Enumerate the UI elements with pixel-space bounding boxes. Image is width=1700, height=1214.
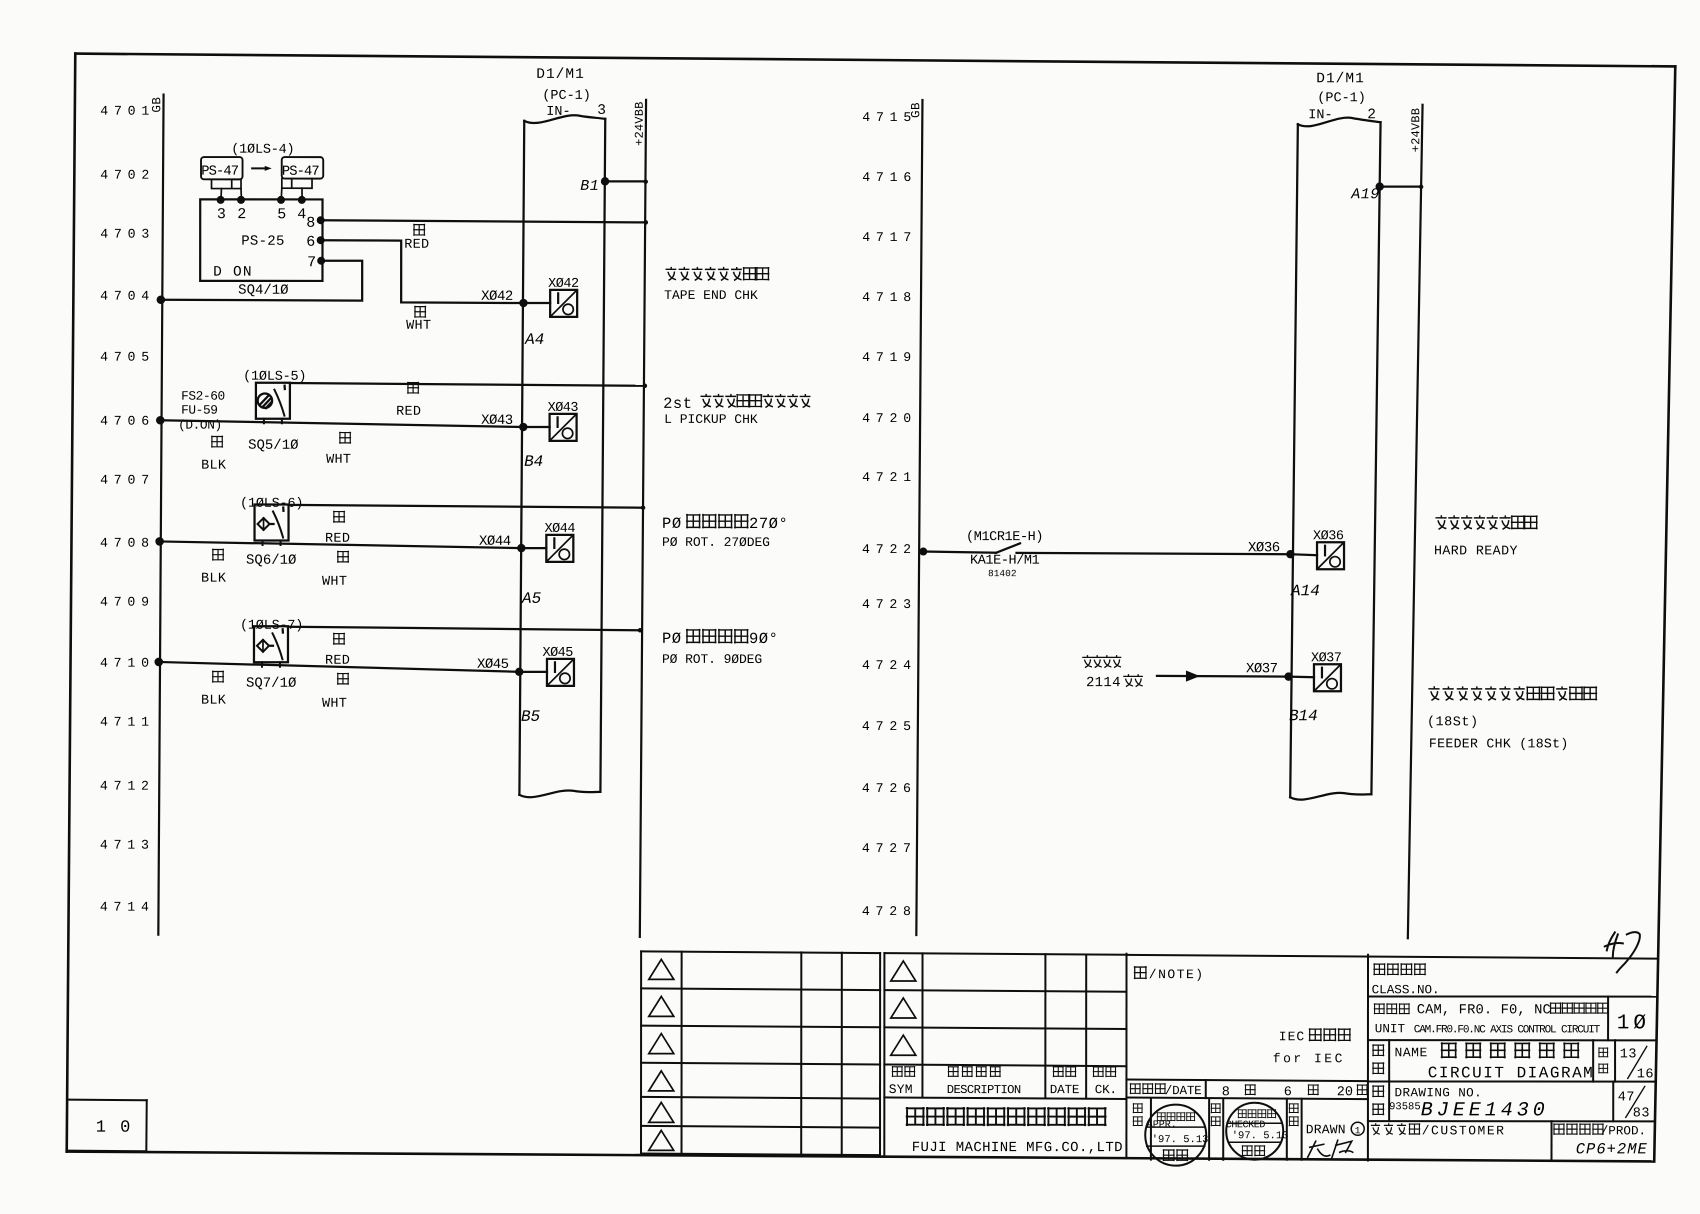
svg-text:B14: B14 [1289,707,1318,725]
svg-text:13: 13 [1620,1047,1637,1062]
svg-text:SQ7/1Ø: SQ7/1Ø [246,676,296,692]
wire 4706 bus to X043 [156,416,523,427]
svg-text:WHT: WHT [322,575,347,590]
drawn by cell [1306,1122,1365,1158]
annotation address from 2114 with arrow [1082,655,1288,691]
svg-text:PØ ROT. 27ØDEG: PØ ROT. 27ØDEG [662,535,770,550]
svg-text:4701: 4701 [100,104,155,119]
svg-text:A14: A14 [1290,582,1320,600]
fuse ref FS2-60 FU-59 (D.ON) [178,389,225,433]
svg-text:4708: 4708 [100,536,155,551]
svg-text:'97. 5.13: '97. 5.13 [1232,1130,1289,1142]
sheet number box 10 (bottom-left) [67,1100,146,1152]
svg-text:4728: 4728 [862,904,917,919]
svg-text:SQ6/1Ø: SQ6/1Ø [246,553,296,569]
svg-text:PØ: PØ [662,630,682,648]
approval stamp 2 (97.5.13) [1226,1103,1288,1160]
svg-text:4703: 4703 [100,227,155,242]
svg-text:B5: B5 [521,708,541,726]
svg-text:BJEE1430: BJEE1430 [1421,1099,1549,1122]
I/O point X037 [1246,651,1342,725]
wire 4710 bus to X045 [154,658,519,672]
svg-text:1Ø: 1Ø [1617,1012,1650,1035]
svg-text:81402: 81402 [988,568,1017,579]
svg-text:4719: 4719 [862,350,917,365]
limit switch SQ5/10 [248,383,298,454]
svg-text:4716: 4716 [862,170,917,185]
PS-25 pin 2 [237,196,246,223]
sensor head PS-47 right [282,157,324,180]
left GB bus wire [158,95,163,935]
svg-text:NAME: NAME [1395,1045,1428,1060]
wire colour label RED (pin8 wire) [404,224,429,253]
svg-text:WHT: WHT [322,697,347,712]
connector D1/M1 left box outline [519,115,605,797]
name row CIRCUIT DIAGRAM [1368,1040,1656,1121]
unit model row CAM FR0 F0 NC AXIS CONTROL CIRCUIT [1368,996,1656,1040]
annotation FEEDER CHK (18St) [1427,686,1597,751]
svg-text:PØ: PØ [662,515,682,533]
svg-text:/PROD.: /PROD. [1601,1124,1646,1138]
svg-text:4720: 4720 [862,411,917,426]
svg-text:4706: 4706 [100,414,155,429]
wire SQ5 top to +24VBB (RED) [290,383,647,388]
svg-text:DESCRIPTION: DESCRIPTION [947,1083,1021,1097]
PS-25 pin 7 [307,254,325,271]
annotation L PICKUP CHK [663,394,810,427]
revision table left [641,951,880,1155]
svg-text:CK.: CK. [1095,1083,1117,1097]
svg-text:D1/M1: D1/M1 [1316,71,1365,87]
class no cell [1368,963,1657,997]
svg-text:SQ5/1Ø: SQ5/1Ø [248,438,298,454]
revision triangles left column [649,959,674,1150]
svg-text:A5: A5 [521,590,542,608]
I/O square symbol [550,290,577,317]
svg-text:RED: RED [396,405,421,420]
svg-text:27Ø°: 27Ø° [749,515,788,533]
svg-text:PS-47: PS-47 [201,165,239,180]
svg-text:4725: 4725 [862,719,917,734]
annotation P0 ROT 270DEG [662,514,788,550]
svg-text:4705: 4705 [100,350,155,365]
approval stamp 1 (97.5.13) [1145,1105,1208,1166]
connector D1/M1 right box outline [1290,118,1380,800]
svg-text:/DATE: /DATE [1165,1084,1202,1098]
svg-text:+24VBB: +24VBB [633,101,647,145]
svg-text:FEEDER CHK (18St): FEEDER CHK (18St) [1429,736,1569,751]
svg-text:8: 8 [306,215,315,232]
svg-text:XØ37: XØ37 [1246,661,1278,677]
limit switch SQ7/10 [246,626,296,691]
label RED SQ7 [325,633,350,669]
svg-text:4710: 4710 [100,656,155,671]
svg-text:B1: B1 [580,178,599,195]
svg-text:20: 20 [1337,1085,1353,1100]
svg-text:XØ45: XØ45 [542,646,573,661]
I/O point X043 [481,401,578,471]
svg-text:FS2-60: FS2-60 [181,389,225,404]
wire SQ6 top to +24VBB (RED) [289,505,646,510]
connector D1/M1 (PC-1) IN-3 left header label [536,67,606,120]
svg-text:SYM: SYM [889,1082,913,1097]
I/O square symbol [547,659,574,686]
svg-text:TAPE END CHK: TAPE END CHK [664,288,758,303]
svg-text:4723: 4723 [862,597,917,612]
label BLK SQ5 [201,436,227,474]
svg-text:2114: 2114 [1086,675,1121,691]
svg-text:CP6+2ME: CP6+2ME [1576,1140,1648,1158]
svg-text:9Ø°: 9Ø° [749,630,778,648]
svg-text:PS-25: PS-25 [241,234,285,250]
svg-text:3: 3 [217,206,226,223]
annotation HARD READY [1434,515,1538,558]
svg-text:CIRCUIT DIAGRAM: CIRCUIT DIAGRAM [1428,1064,1595,1082]
PS-25 pin 3 [217,196,226,223]
svg-text:B4: B4 [524,453,543,471]
node A19 on connector to +24VBB [1350,182,1423,203]
svg-text:A19: A19 [1350,186,1380,203]
svg-text:BLK: BLK [201,572,227,587]
svg-text:2: 2 [237,206,246,223]
svg-text:+24VBB: +24VBB [1409,108,1423,152]
svg-text:XØ42: XØ42 [548,277,579,292]
handwritten sheet mark 47 [1605,932,1640,972]
PS-25 pin 4 [297,196,306,223]
svg-text:RED: RED [325,654,350,669]
photo sensor unit PS-25 / SQ4-10 box outline [200,199,322,281]
svg-text:D1/M1: D1/M1 [536,67,585,83]
svg-text:for IEC: for IEC [1273,1051,1345,1066]
label WHT SQ6 [322,551,349,590]
svg-text:SQ4/1Ø: SQ4/1Ø [238,283,288,299]
svg-text:(1ØLS-4): (1ØLS-4) [231,143,294,158]
+24VBB supply bus right [1408,105,1423,939]
svg-text:XØ43: XØ43 [548,401,579,416]
svg-text:APPR.: APPR. [1147,1120,1177,1131]
svg-text:(M1CR1E-H): (M1CR1E-H) [966,530,1043,545]
svg-text:XØ44: XØ44 [545,522,576,537]
svg-text:L PICKUP CHK: L PICKUP CHK [664,412,758,427]
svg-text:5: 5 [277,206,286,223]
svg-text:XØ43: XØ43 [481,413,513,429]
wire colour label WHT (pin6 wire) [406,306,431,334]
svg-text:XØ37: XØ37 [1311,651,1342,666]
svg-text:IEC: IEC [1279,1029,1305,1044]
svg-text:'97. 5.13: '97. 5.13 [1152,1134,1209,1146]
PS-25 pin 6 [306,234,325,251]
svg-text:4724: 4724 [862,658,917,673]
wire PS-25 pin6 to X042 [321,240,524,303]
note cell [1126,955,1656,1161]
note text for IEC [1273,1028,1351,1066]
arrow between PS-47 heads [252,166,272,171]
svg-text:(PC-1): (PC-1) [1317,91,1366,106]
svg-text:93585: 93585 [1389,1101,1421,1113]
svg-text:83: 83 [1633,1106,1650,1121]
svg-text:XØ42: XØ42 [481,289,513,305]
relay contact KA1E-H/M1 line 4722 [919,530,1290,579]
svg-text:KA1E-H/M1: KA1E-H/M1 [970,554,1040,569]
svg-text:FU-59: FU-59 [181,403,217,418]
I/O point X036 [1248,529,1344,600]
line numbers 4701-4714 [100,104,155,915]
svg-text:4: 4 [297,206,306,223]
PS-25 pin 8 [306,215,325,232]
I/O point X044 [479,522,575,608]
wire SQ7 top to +24VBB (RED) [288,627,642,633]
+24VBB supply bus left [632,100,646,937]
svg-text:BLK: BLK [201,694,227,709]
I/O point X045 [477,646,574,726]
svg-text:4726: 4726 [862,781,917,796]
annotation P0 ROT 90DEG [662,629,778,667]
I/O point X042 [481,277,579,349]
svg-text:4709: 4709 [100,595,155,610]
svg-text:HARD READY: HARD READY [1434,543,1518,558]
date row year month day [1130,1080,1368,1100]
revision table right (SYM/DESCRIPTION/DATE/CK) [884,953,1126,1158]
PS-47 left plug & pin wires [212,179,242,199]
svg-text:7: 7 [307,254,316,271]
connector D1/M1 (PC-1) IN-2 right header label [1308,71,1376,123]
svg-text:4721: 4721 [862,470,917,485]
svg-text:4718: 4718 [862,290,917,305]
svg-text:4702: 4702 [100,168,155,183]
approval cells and stamps [1133,1099,1302,1160]
svg-text:47: 47 [1618,1090,1635,1105]
svg-text:4713: 4713 [100,838,155,853]
svg-text:DATE: DATE [1050,1083,1079,1097]
I/O square symbol [550,414,577,441]
wire PS-25 pin7 to bus line 4704 [157,261,363,305]
svg-text:XØ36: XØ36 [1313,529,1344,544]
company cell FUJI MACHINE MFG.CO.,LTD [906,1107,1123,1156]
svg-text:1: 1 [1355,1125,1361,1136]
wire PS-25 pin8 to +24VBB [321,220,648,225]
label WHT SQ7 [322,673,349,712]
svg-text:CAM.FR0.F0.NC AXIS CONTROL CIR: CAM.FR0.F0.NC AXIS CONTROL CIRCUIT [1414,1024,1601,1036]
customer row [1371,1121,1648,1161]
svg-text:4717: 4717 [862,230,917,245]
svg-text:RED: RED [404,238,429,253]
label RED SQ5 [396,382,421,420]
svg-text:4714: 4714 [100,900,155,915]
svg-text:DRAWN: DRAWN [1306,1122,1346,1137]
svg-text:PS-47: PS-47 [282,165,320,180]
I/O square symbol [546,535,573,562]
svg-text:4727: 4727 [862,841,917,856]
PS-25 pin 5 [277,196,286,223]
wire 4708 bus to X044 [155,537,521,548]
annotation TAPE END CHK [664,267,769,303]
svg-text:XØ44: XØ44 [479,534,511,550]
line numbers 4715-4728 [862,110,917,919]
I/O square symbol [1317,542,1344,569]
svg-text:4722: 4722 [862,542,917,557]
svg-text:4711: 4711 [100,715,155,730]
svg-text:4715: 4715 [862,110,917,125]
label WHT SQ5 [326,432,351,468]
label BLK SQ7 [201,671,227,709]
svg-text:6: 6 [306,234,315,251]
svg-text:16: 16 [1637,1067,1654,1082]
label BLK SQ6 [201,549,227,587]
svg-text:1 0: 1 0 [96,1119,133,1138]
revision triangles second column [891,961,916,1055]
I/O square symbol [1314,664,1341,691]
svg-text:A4: A4 [524,331,544,349]
svg-text:/CUSTOMER: /CUSTOMER [1422,1123,1506,1138]
svg-text:4712: 4712 [100,779,155,794]
svg-text:FUJI MACHINE MFG.CO.,LTD: FUJI MACHINE MFG.CO.,LTD [912,1140,1123,1156]
drawing no row BJEE1430 [1368,1081,1655,1122]
svg-text:CAM, FR0. F0, NC: CAM, FR0. F0, NC [1417,1003,1551,1018]
svg-text:WHT: WHT [326,453,351,468]
svg-text:/NOTE): /NOTE) [1149,967,1205,982]
svg-text:D ON: D ON [213,265,253,281]
svg-text:XØ45: XØ45 [477,657,509,673]
svg-text:4707: 4707 [100,473,155,488]
limit switch SQ6/10 [246,504,296,568]
sensor head PS-47 left [201,157,243,180]
svg-text:(PC-1): (PC-1) [542,89,591,104]
svg-text:XØ36: XØ36 [1248,540,1280,556]
svg-text:(18St): (18St) [1427,715,1479,730]
node B1 on connector to +24VBB [580,177,648,195]
svg-text:DRAWING NO.: DRAWING NO. [1395,1086,1483,1100]
svg-text:CLASS.NO.: CLASS.NO. [1372,983,1440,997]
svg-text:UNIT: UNIT [1375,1022,1406,1036]
svg-text:3: 3 [597,103,606,119]
svg-text:4704: 4704 [100,289,155,304]
right GB bus wire [916,100,922,935]
svg-text:WHT: WHT [406,319,431,334]
svg-text:RED: RED [325,532,350,547]
svg-text:BLK: BLK [201,459,227,474]
revision header labels SYM DESCRIPTION DATE CK [889,1066,1117,1097]
svg-text:PØ ROT. 9ØDEG: PØ ROT. 9ØDEG [662,652,762,667]
svg-text:2st: 2st [663,395,692,413]
label RED SQ6 [325,511,350,547]
PS-47 right plug & pin wires [281,179,312,200]
